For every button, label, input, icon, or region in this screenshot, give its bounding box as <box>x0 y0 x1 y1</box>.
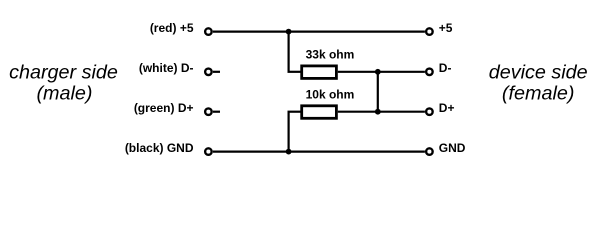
svg-text:(white) D-: (white) D- <box>139 61 194 75</box>
terminal: charger GND pin <box>205 148 212 155</box>
terminal: device GND pin <box>426 148 433 155</box>
svg-text:(female): (female) <box>502 83 575 105</box>
junction: D+ line tap <box>375 109 381 115</box>
label: device side (female) <box>489 62 588 105</box>
wire: vertical rise from GND line to 10k resistor <box>288 112 290 152</box>
wire: 10k resistor output to device D+ pin <box>338 111 425 113</box>
wire: +5 line from charger pin to device pin <box>213 31 425 33</box>
wire: GND line from charger pin to device pin <box>213 151 425 153</box>
svg-text:D+: D+ <box>439 101 455 115</box>
svg-text:(red) +5: (red) +5 <box>150 21 194 35</box>
terminal: charger D- pin <box>205 69 212 76</box>
svg-text:device side: device side <box>489 62 588 84</box>
resistor 10k ohm <box>302 106 337 119</box>
svg-text:charger side: charger side <box>9 61 118 83</box>
svg-text:(green) D+: (green) D+ <box>134 101 194 115</box>
terminal: charger D+ pin <box>205 108 212 115</box>
wire: stub right of charger D+ pin <box>213 111 220 113</box>
wire: stub right of charger D- pin <box>213 71 220 73</box>
svg-text:10k ohm: 10k ohm <box>306 87 355 101</box>
svg-text:(male): (male) <box>36 83 92 105</box>
wire: vertical drop from +5 line to 33k resistor <box>288 32 290 72</box>
svg-text:+5: +5 <box>439 21 453 35</box>
terminal: device D- pin <box>426 69 433 76</box>
wire: 33k resistor output to device D- pin <box>338 71 425 73</box>
svg-text:(black) GND: (black) GND <box>125 141 194 155</box>
resistor 33k ohm <box>302 66 337 79</box>
junction: D- line tap <box>375 69 381 75</box>
wire: horizontal into 10k resistor left lead <box>288 111 301 113</box>
terminal: device +5 pin <box>426 28 433 34</box>
label: charger side (male) <box>9 61 118 104</box>
junction: GND line tap <box>286 149 292 155</box>
wire: horizontal into 33k resistor left lead <box>288 71 301 73</box>
terminal: charger +5 pin <box>205 28 212 34</box>
terminal: device D+ pin <box>426 108 433 115</box>
junction: +5 line tap <box>286 29 292 35</box>
svg-text:GND: GND <box>439 141 466 155</box>
wire: vertical bus tying D- and D+ <box>377 72 379 112</box>
svg-text:D-: D- <box>439 61 452 75</box>
svg-text:33k ohm: 33k ohm <box>306 48 355 62</box>
